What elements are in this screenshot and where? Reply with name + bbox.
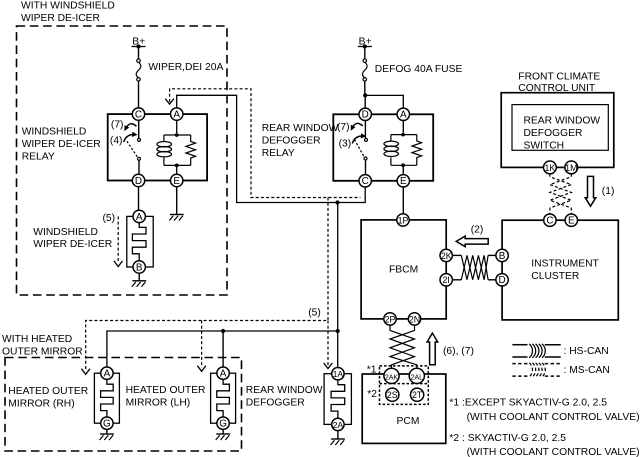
svg-text:2I: 2I <box>443 275 450 285</box>
svg-text:MIRROR (RH): MIRROR (RH) <box>8 398 74 409</box>
svg-text:WIPER DE-ICER: WIPER DE-ICER <box>22 139 101 150</box>
svg-text:INSTRUMENT: INSTRUMENT <box>531 259 599 270</box>
svg-text:REAR WINDOW: REAR WINDOW <box>246 385 323 396</box>
svg-text:*2: *2 <box>367 389 377 400</box>
svg-text:(5): (5) <box>103 213 116 224</box>
svg-text:WINDSHIELD: WINDSHIELD <box>33 227 98 238</box>
svg-text:2S: 2S <box>387 390 398 400</box>
svg-text:FBCM: FBCM <box>389 265 418 276</box>
svg-text:1P: 1P <box>398 215 409 225</box>
svg-text:DEFOGGER: DEFOGGER <box>524 128 583 139</box>
svg-text:DEFOGGER: DEFOGGER <box>262 136 321 147</box>
svg-text:G: G <box>103 419 111 430</box>
svg-text:WIPER,DEI 20A: WIPER,DEI 20A <box>148 62 223 73</box>
svg-text:(WITH COOLANT CONTROL VALVE): (WITH COOLANT CONTROL VALVE) <box>467 447 640 457</box>
svg-text:*1 :EXCEPT SKYACTIV-G 2.0, 2.5: *1 :EXCEPT SKYACTIV-G 2.0, 2.5 <box>449 398 607 409</box>
svg-text:HEATED OUTER: HEATED OUTER <box>8 386 88 397</box>
svg-text:FRONT CLIMATE: FRONT CLIMATE <box>518 72 600 83</box>
svg-text:: HS-CAN: : HS-CAN <box>564 346 609 357</box>
svg-text:A: A <box>136 212 143 223</box>
svg-text:RELAY: RELAY <box>262 148 295 159</box>
svg-text:(WITH COOLANT CONTROL VALVE): (WITH COOLANT CONTROL VALVE) <box>467 412 640 423</box>
svg-text:RELAY: RELAY <box>22 151 55 162</box>
svg-text:(1): (1) <box>602 186 615 197</box>
svg-text:E: E <box>400 176 407 187</box>
svg-text:(6), (7): (6), (7) <box>443 346 474 357</box>
svg-text:(3): (3) <box>339 138 352 149</box>
svg-text:E: E <box>173 176 180 187</box>
svg-text:(4): (4) <box>110 136 123 147</box>
svg-text:DEFOG 40A FUSE: DEFOG 40A FUSE <box>375 64 463 75</box>
svg-text:2P: 2P <box>385 314 396 324</box>
svg-text:WITH HEATED: WITH HEATED <box>2 334 72 345</box>
svg-text:A: A <box>104 369 111 380</box>
svg-text:CONTROL UNIT: CONTROL UNIT <box>518 83 596 94</box>
svg-text:2AL: 2AL <box>411 374 424 381</box>
svg-text:CLUSTER: CLUSTER <box>531 271 579 282</box>
svg-text:B: B <box>136 262 143 273</box>
svg-text:OUTER MIRROR: OUTER MIRROR <box>2 346 83 357</box>
svg-text:WITH WINDSHIELD: WITH WINDSHIELD <box>21 1 115 12</box>
svg-text:MIRROR (LH): MIRROR (LH) <box>126 397 191 408</box>
svg-text:2AK: 2AK <box>385 374 399 381</box>
svg-text:G: G <box>219 419 227 430</box>
svg-text:*1: *1 <box>367 364 377 375</box>
svg-text:1K: 1K <box>545 163 556 173</box>
svg-text:A: A <box>400 110 407 121</box>
svg-text:C: C <box>546 216 553 227</box>
svg-text:WIPER DE-ICER: WIPER DE-ICER <box>33 239 112 250</box>
svg-text:B: B <box>499 251 506 262</box>
svg-text:D: D <box>135 176 142 187</box>
svg-text:: MS-CAN: : MS-CAN <box>564 365 610 376</box>
svg-text:WINDSHIELD: WINDSHIELD <box>22 127 87 138</box>
svg-text:*2 : SKYACTIV-G 2.0, 2.5: *2 : SKYACTIV-G 2.0, 2.5 <box>449 433 566 444</box>
svg-text:(5): (5) <box>308 308 321 319</box>
svg-text:WIPER DE-ICER: WIPER DE-ICER <box>21 13 100 24</box>
svg-text:2N: 2N <box>409 314 420 324</box>
svg-text:A: A <box>173 110 180 121</box>
svg-text:1A: 1A <box>333 369 344 379</box>
svg-text:SWITCH: SWITCH <box>524 140 565 151</box>
svg-text:D: D <box>362 110 369 121</box>
svg-text:A: A <box>220 369 227 380</box>
svg-text:E: E <box>568 216 575 227</box>
svg-text:HEATED OUTER: HEATED OUTER <box>126 385 206 396</box>
svg-text:(7): (7) <box>337 122 350 133</box>
svg-text:(2): (2) <box>471 224 484 235</box>
svg-text:C: C <box>135 110 142 121</box>
svg-text:2T: 2T <box>412 390 423 400</box>
svg-text:REAR WINDOW: REAR WINDOW <box>262 123 339 134</box>
svg-text:REAR WINDOW: REAR WINDOW <box>524 116 601 127</box>
svg-text:D: D <box>499 275 506 286</box>
svg-text:2K: 2K <box>441 251 452 261</box>
svg-text:C: C <box>362 176 369 187</box>
svg-text:(7): (7) <box>111 119 124 130</box>
svg-text:1M: 1M <box>565 163 577 173</box>
svg-text:PCM: PCM <box>397 416 420 427</box>
svg-text:DEFOGGER: DEFOGGER <box>246 397 305 408</box>
svg-text:2A: 2A <box>333 420 344 430</box>
